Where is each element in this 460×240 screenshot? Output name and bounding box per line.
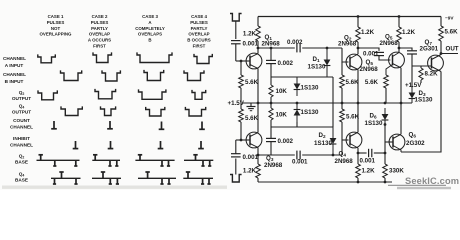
svg-text:FIRST: FIRST	[93, 44, 106, 49]
node +1.5V bus junctions	[257, 102, 260, 105]
inhibit channel tick case 1	[75, 141, 77, 149]
svg-text:CASE 4: CASE 4	[191, 14, 207, 19]
svg-text:1.2K: 1.2K	[243, 168, 257, 175]
waveform Q4 output case 3	[146, 107, 165, 116]
diode D3 1S130	[411, 66, 413, 88]
inhibit channel tick case 3	[160, 141, 162, 149]
node C6 right junction	[384, 152, 387, 155]
diode D2 1S130	[332, 127, 334, 138]
node Q3 base junction	[240, 139, 243, 142]
wire Q4 emitter	[357, 103, 359, 132]
wire Q3 emitter	[257, 103, 259, 133]
waveform channel A input case 2	[93, 52, 112, 62]
wire Q2 collector to C4	[358, 48, 379, 51]
wire Q3 collector to coupling node	[258, 154, 295, 156]
waveform Q2 output case 4	[192, 90, 206, 99]
svg-text:A INPUT: A INPUT	[5, 63, 24, 68]
count channel tick case 4	[201, 122, 203, 130]
svg-text:0.001: 0.001	[360, 158, 376, 165]
resistor R8 5.6K Q3 bias	[240, 103, 242, 109]
waveform Q2 output case 3	[139, 89, 166, 99]
svg-text:PARTLY: PARTLY	[91, 26, 108, 31]
waveform channel B input case 3	[144, 70, 164, 81]
resistor R1 1.2K Q1 collector load	[257, 17, 259, 27]
scan smear bottom	[2, 186, 227, 189]
inhibit channel tick case 2	[110, 141, 112, 149]
waveform Q4 base case 1	[51, 177, 81, 179]
capacitor C1 0.001 input A	[231, 40, 241, 42]
svg-text:BASE: BASE	[15, 178, 28, 183]
inhibit channel tick case 4	[200, 141, 202, 149]
svg-text:OVERLAPPING: OVERLAPPING	[40, 32, 73, 37]
node Q3 collector junction	[257, 154, 260, 157]
input B pulse symbol	[230, 175, 242, 183]
wire input A to capacitor	[235, 21, 237, 39]
waveform Q4 base case 4	[183, 177, 213, 179]
svg-text:Q6: Q6	[409, 132, 417, 139]
capacitor C8 0.001 series	[296, 151, 298, 160]
wire +1.5V bus	[242, 102, 412, 104]
waveform Q2 output case 1	[38, 90, 57, 99]
svg-text:A OCCURS: A OCCURS	[88, 38, 111, 43]
wire Q6 emitter	[400, 103, 402, 134]
svg-text:2G301: 2G301	[420, 46, 439, 53]
wire Q5 collector to C5	[399, 48, 412, 50]
resistor R7 1.2K Q2 load	[357, 17, 359, 28]
transistor Q7	[428, 55, 444, 71]
wire input B to capacitor	[235, 159, 237, 175]
svg-text:2N968: 2N968	[262, 41, 281, 48]
waveform channel A input case 3	[137, 52, 172, 62]
svg-text:10K: 10K	[276, 88, 288, 95]
svg-text:OVERLAP: OVERLAP	[188, 32, 209, 37]
svg-text:CHANNEL: CHANNEL	[3, 72, 26, 77]
svg-text:CASE 1: CASE 1	[48, 14, 64, 19]
svg-text:OVERLAPS: OVERLAPS	[138, 32, 162, 37]
count channel tick case 3	[161, 122, 163, 130]
capacitor C3 0.002 shunt	[270, 48, 272, 60]
svg-text:2G302: 2G302	[406, 140, 425, 147]
svg-text:COMPLETELY: COMPLETELY	[135, 26, 165, 31]
diode D1 1S130	[326, 47, 329, 50]
svg-text:CHANNEL: CHANNEL	[10, 124, 33, 129]
resistor R2 5.6K Q1 bias	[240, 61, 242, 75]
waveform Q4 output case 2	[101, 106, 116, 115]
svg-text:1S130: 1S130	[314, 140, 332, 147]
waveform Q4 output case 1	[61, 106, 82, 115]
svg-text:OUTPUT: OUTPUT	[12, 96, 31, 101]
waveform channel B input case 2	[102, 70, 120, 81]
svg-text:+1.5V: +1.5V	[405, 82, 422, 89]
svg-text:Q5: Q5	[366, 59, 374, 66]
svg-text:1S130: 1S130	[301, 85, 319, 92]
resistor R11 5.6K Q5 emitter	[386, 65, 393, 76]
svg-text:CASE 3: CASE 3	[142, 14, 158, 19]
node top rail junctions	[357, 15, 360, 18]
waveform Q2 base case 3	[135, 159, 174, 161]
wire bridge right side	[332, 77, 334, 127]
waveform channel B input case 4	[184, 70, 204, 80]
diode D6 1S130	[384, 108, 386, 114]
node Q1 base junction	[240, 60, 243, 63]
svg-text:2N968: 2N968	[360, 66, 379, 73]
svg-text:Q3: Q3	[266, 155, 274, 162]
wire D6 to Q6 base node	[384, 122, 386, 153]
svg-text:Q4: Q4	[339, 151, 347, 158]
waveform channel B input case 1	[61, 70, 82, 80]
waveform channel A input case 4	[194, 54, 212, 64]
svg-text:−9V: −9V	[445, 16, 454, 21]
svg-text:D2: D2	[319, 132, 326, 139]
svg-text:CHANNEL: CHANNEL	[10, 143, 33, 148]
svg-text:D6: D6	[370, 112, 377, 119]
svg-text:PULSES: PULSES	[190, 20, 208, 25]
svg-text:2N968: 2N968	[335, 158, 354, 165]
svg-text:0.002: 0.002	[278, 60, 294, 67]
svg-text:1S130: 1S130	[415, 97, 433, 104]
svg-text:0.001: 0.001	[243, 41, 259, 48]
svg-text:OVERLAP: OVERLAP	[89, 32, 110, 37]
svg-text:OUT: OUT	[446, 46, 459, 53]
node Q5 collector junction	[398, 47, 401, 50]
svg-text:COUNT: COUNT	[13, 118, 30, 123]
waveform Q2 base case 2	[92, 159, 120, 161]
svg-text:0.002: 0.002	[287, 39, 303, 46]
svg-text:1S130: 1S130	[301, 109, 319, 116]
diode D2a 1S130 upper	[296, 77, 298, 84]
input A pulse symbol	[230, 14, 242, 22]
svg-text:B INPUT: B INPUT	[5, 79, 24, 84]
svg-text:B: B	[148, 38, 151, 43]
waveform Q4 base case 2	[92, 177, 121, 179]
svg-text:1.2K: 1.2K	[362, 168, 376, 175]
waveform Q2 base case 4	[184, 159, 213, 161]
svg-text:PULSES: PULSES	[91, 20, 109, 25]
svg-text:OUTPUT: OUTPUT	[12, 110, 31, 115]
transistor Q4	[346, 132, 362, 148]
transistor Q2	[346, 54, 362, 70]
svg-text:0.001: 0.001	[243, 154, 259, 161]
resistor R6 5.6K lower	[341, 103, 343, 109]
svg-text:PARTLY: PARTLY	[191, 26, 208, 31]
diode D2b 1S130 lower	[296, 103, 298, 110]
ground	[250, 103, 252, 107]
wire OUT	[441, 53, 458, 55]
svg-text:8.2K: 8.2K	[425, 71, 439, 78]
svg-text:PULSES: PULSES	[47, 20, 65, 25]
wire Q7 emitter to Q6 collector	[401, 72, 441, 153]
resistor R13 5.6K Q7 load	[440, 17, 442, 27]
svg-text:1S130: 1S130	[365, 120, 383, 127]
svg-text:5.6K: 5.6K	[245, 79, 259, 86]
svg-text:2N968: 2N968	[380, 40, 399, 47]
capacitor C4 0.001	[374, 51, 384, 53]
svg-text:1S130: 1S130	[308, 63, 326, 70]
wire bridge bottom	[271, 126, 333, 128]
transistor Q1	[246, 53, 262, 69]
svg-text:5.6K: 5.6K	[365, 79, 379, 86]
wire input A to Q1 base	[236, 60, 250, 62]
svg-text:2N968: 2N968	[264, 162, 283, 169]
svg-text:0.002: 0.002	[278, 138, 294, 145]
svg-text:330K: 330K	[389, 168, 404, 175]
svg-text:1.2K: 1.2K	[402, 29, 416, 36]
svg-text:SeekIC.com: SeekIC.com	[405, 176, 459, 186]
node Q2 collector junction	[357, 47, 360, 50]
svg-text:0.001: 0.001	[363, 51, 379, 58]
svg-text:10K: 10K	[276, 112, 288, 119]
resistor R15 330K	[384, 153, 386, 164]
wire input B to Q3 base	[236, 139, 250, 141]
svg-text:D1: D1	[313, 56, 320, 63]
svg-text:5.6K: 5.6K	[445, 29, 459, 36]
wire Q2 base column	[342, 48, 349, 62]
node Q4 collector junction	[357, 152, 360, 155]
svg-text:5.6K: 5.6K	[245, 115, 259, 122]
svg-text:5.6K: 5.6K	[346, 79, 360, 86]
waveform Q4 output case 4	[185, 107, 205, 116]
node Q7 collector junction	[440, 52, 443, 55]
capacitor C7 0.001 input B	[231, 153, 241, 155]
waveform channel A input case 1	[38, 54, 56, 62]
node C3 top junction	[270, 47, 273, 50]
wire bottom rail	[258, 181, 392, 183]
capacitor C2 0.002 series	[296, 44, 298, 53]
waveform Q2 output case 2	[95, 89, 116, 99]
resistor R10 1.2K Q5 load	[398, 17, 400, 28]
wire bridge top	[271, 76, 333, 78]
wire Q5 emitter column	[400, 68, 402, 103]
waveform Q2 base case 1	[37, 159, 80, 161]
wire Q1 collector to coupling node	[258, 47, 295, 49]
resistor R14 1.2K	[357, 153, 359, 164]
svg-text:FIRST: FIRST	[193, 44, 206, 49]
svg-text:+1.5V: +1.5V	[228, 100, 245, 107]
capacitor C6 0.001	[358, 152, 367, 154]
svg-text:1.2K: 1.2K	[243, 31, 257, 38]
count channel tick case 2	[109, 121, 111, 129]
wire Q6 base	[385, 141, 393, 143]
resistor R9 1.2K Q3 collector load	[257, 148, 259, 165]
wire Q7 base	[412, 65, 432, 67]
wire Q1 emitter	[257, 69, 259, 104]
transistor Q6	[389, 134, 405, 150]
svg-text:0.001: 0.001	[292, 159, 308, 166]
svg-text:CASE 2: CASE 2	[92, 14, 108, 19]
transistor Q3	[246, 132, 262, 148]
resistor R3 10K upper	[270, 77, 272, 85]
svg-text:NOT: NOT	[51, 26, 61, 31]
svg-text:2N968: 2N968	[338, 41, 357, 48]
resistor R5 5.6K upper	[340, 75, 345, 88]
resistor R12 8.2K	[420, 66, 422, 68]
svg-text:BASE: BASE	[15, 159, 28, 164]
transistor Q5	[389, 52, 405, 68]
wire Q4 base tap	[342, 139, 349, 141]
svg-text:CHANNEL: CHANNEL	[3, 56, 26, 61]
wire -9V top rail	[258, 16, 441, 18]
svg-text:INHIBIT: INHIBIT	[13, 136, 30, 141]
capacitor C9 0.002 shunt	[270, 127, 272, 138]
count channel tick case 1	[53, 121, 55, 129]
wire Q2 emitter	[357, 70, 359, 104]
waveform Q4 base case 3	[138, 177, 176, 179]
resistor R4 10K lower	[270, 103, 272, 108]
wire Q4 collector	[357, 148, 359, 153]
node Q1 collector junction	[257, 47, 260, 50]
svg-text:1.2K: 1.2K	[361, 29, 375, 36]
svg-text:B OCCURS: B OCCURS	[187, 38, 210, 43]
node bottom rail junctions	[357, 181, 360, 184]
capacitor C5 0.001	[407, 50, 417, 52]
